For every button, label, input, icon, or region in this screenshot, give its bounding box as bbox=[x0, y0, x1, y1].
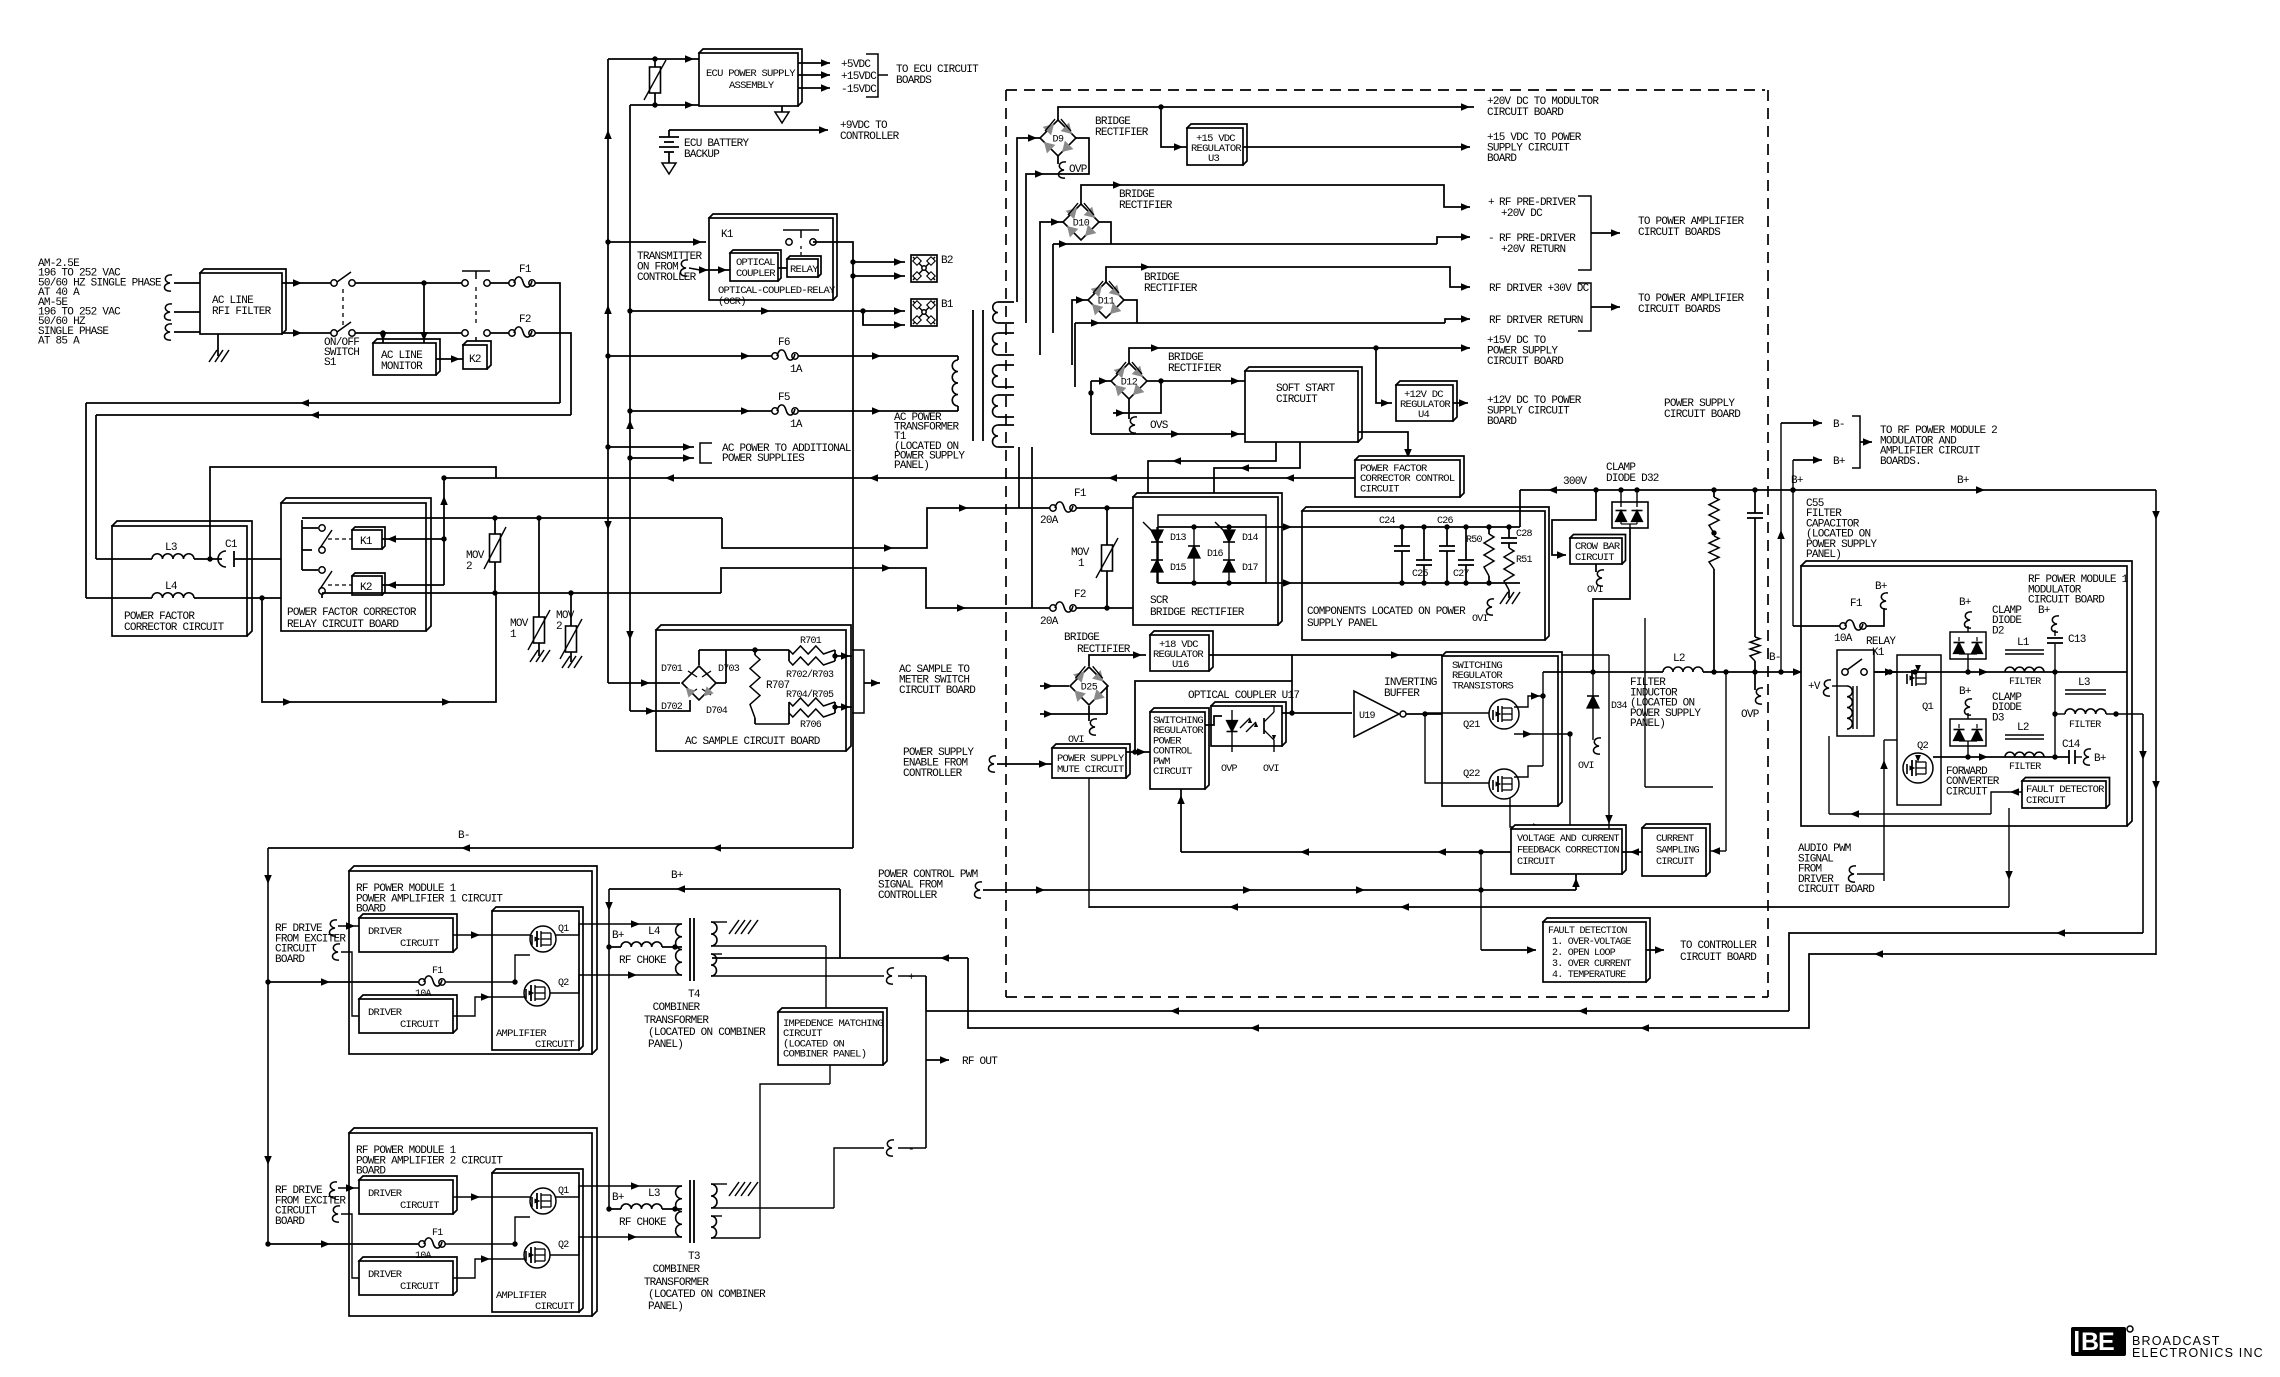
divider resistor chain bbox=[1713, 490, 1715, 497]
svg-text:20A: 20A bbox=[1040, 616, 1059, 628]
svg-text:+: + bbox=[908, 972, 914, 984]
svg-text:CIRCUIT: CIRCUIT bbox=[1656, 857, 1694, 868]
svg-text:CIRCUIT: CIRCUIT bbox=[1575, 552, 1614, 564]
svg-text:D14: D14 bbox=[1242, 533, 1259, 544]
svg-text:B+: B+ bbox=[612, 1192, 624, 1204]
RF POWER MODULE PA1 box bbox=[349, 866, 597, 1054]
svg-text:3. OVER CURRENT: 3. OVER CURRENT bbox=[1552, 959, 1632, 970]
T4 to IMC riser bbox=[825, 946, 827, 1012]
svg-text:B+: B+ bbox=[1791, 475, 1803, 487]
T3 ground bbox=[729, 1182, 739, 1196]
svg-text:RECTIFIER: RECTIFIER bbox=[1095, 127, 1149, 139]
svg-text:C25: C25 bbox=[1412, 569, 1429, 580]
dashed link K2 bbox=[328, 584, 352, 586]
AC input squiggle 3 bbox=[164, 324, 172, 340]
svg-text:Q21: Q21 bbox=[1463, 719, 1480, 731]
fault detection output bbox=[1646, 949, 1664, 951]
on/off switch S1 pole 1 bbox=[331, 280, 337, 286]
svg-text:(LOCATED ON COMBINER: (LOCATED ON COMBINER bbox=[648, 1289, 766, 1301]
RELAY K1 box bbox=[1837, 650, 1874, 736]
feedback to PWM riser bbox=[1180, 789, 1182, 852]
ECU +5VDC out bbox=[798, 62, 830, 64]
wire to PFC left leg 1 bbox=[86, 402, 560, 404]
svg-text:PANEL): PANEL) bbox=[1806, 549, 1841, 561]
svg-text:FAULT DETECTION: FAULT DETECTION bbox=[1548, 926, 1628, 937]
svg-text:PANEL): PANEL) bbox=[648, 1301, 683, 1313]
feedback output line bbox=[1181, 851, 1511, 853]
inductor L2 filter bbox=[2005, 734, 2044, 736]
drain column bbox=[1542, 672, 1544, 766]
B- bus bbox=[268, 847, 853, 849]
300V rail bbox=[1520, 489, 2156, 491]
T3 secondary leads bbox=[711, 1183, 727, 1185]
svg-text:CIRCUIT BOARD: CIRCUIT BOARD bbox=[1680, 952, 1757, 964]
thyristor D13 bbox=[1151, 530, 1163, 542]
T4 secondary bbox=[711, 922, 717, 946]
FAULT DETECTOR CIRCUIT box bbox=[2022, 778, 2110, 809]
feedback top riser bbox=[1562, 654, 1609, 656]
svg-text:BE: BE bbox=[2081, 1328, 2114, 1356]
svg-text:1A: 1A bbox=[790, 419, 803, 431]
svg-text:CIRCUIT: CIRCUIT bbox=[1153, 766, 1192, 778]
MOSFET Q1 bbox=[1911, 670, 1913, 686]
output port bbox=[898, 975, 926, 977]
B1 feed 2 bbox=[863, 311, 905, 325]
B+ bus west bbox=[609, 888, 840, 890]
OPTICAL COUPLER U17 box bbox=[1211, 702, 1286, 746]
svg-text:PANEL): PANEL) bbox=[648, 1039, 683, 1051]
B+ choke riser bbox=[608, 889, 610, 1209]
B+ rail right end bbox=[2155, 490, 2157, 955]
svg-text:10A: 10A bbox=[415, 989, 432, 1000]
PFC left verticals bbox=[85, 403, 87, 598]
U3 input wire bbox=[1161, 107, 1187, 147]
driver to Q2 2 bbox=[453, 1259, 524, 1278]
svg-text:CONTROLLER: CONTROLLER bbox=[840, 131, 900, 143]
capacitor C25 bbox=[1416, 559, 1432, 561]
combiner transformer T3 primary bbox=[676, 1186, 682, 1237]
svg-text:SCR: SCR bbox=[1150, 595, 1169, 607]
ground under RFI filter bbox=[217, 334, 219, 356]
ECU ground bbox=[781, 106, 783, 112]
D9 return loop bbox=[1026, 138, 1089, 323]
D12 aux loop bbox=[1113, 381, 1161, 413]
sample out 1 bbox=[835, 655, 852, 657]
svg-text:CORRECTOR CIRCUIT: CORRECTOR CIRCUIT bbox=[124, 622, 225, 634]
wire S1 to K contacts top bbox=[355, 282, 462, 284]
B1 feed 1 bbox=[630, 310, 905, 312]
300V riser bbox=[1644, 618, 1646, 787]
svg-text:SAMPLING: SAMPLING bbox=[1656, 846, 1700, 857]
svg-text:U3: U3 bbox=[1208, 153, 1220, 165]
svg-text:L2: L2 bbox=[1673, 653, 1685, 665]
K relay contact top bbox=[462, 280, 468, 286]
svg-text:F2: F2 bbox=[519, 314, 531, 326]
U16 feed down to opto bbox=[1291, 655, 1293, 713]
sample out bracket bbox=[852, 650, 864, 713]
bridge module B1 bbox=[911, 299, 937, 326]
B- left riser bbox=[267, 848, 269, 1244]
svg-text:C27: C27 bbox=[1453, 569, 1470, 580]
AC input squiggle 2 bbox=[164, 304, 172, 320]
clamp diode D32 bbox=[1612, 502, 1648, 528]
svg-text:D11: D11 bbox=[1098, 297, 1115, 308]
Q2 out 2 bbox=[550, 1237, 682, 1255]
svg-text:DRIVER: DRIVER bbox=[368, 926, 403, 938]
svg-text:C24: C24 bbox=[1379, 516, 1396, 527]
svg-text:TO CONTROLLER: TO CONTROLLER bbox=[1680, 940, 1757, 952]
components panel box bbox=[1302, 507, 1549, 640]
inductor L3 bbox=[96, 558, 152, 560]
crow bar feed bbox=[1552, 490, 1596, 555]
T1 core bbox=[972, 310, 974, 441]
svg-text:TRANSFORMER: TRANSFORMER bbox=[644, 1015, 710, 1027]
D25 input bbox=[1040, 685, 1069, 687]
fault detector input bbox=[2005, 791, 2022, 793]
sampling right feed bbox=[1725, 672, 1727, 851]
soft start to PFC control wire bbox=[1358, 432, 1408, 460]
PFC control output long wire bbox=[444, 477, 1355, 479]
bracket arrow bbox=[1860, 441, 1872, 443]
bridge rectifier D9 bbox=[1040, 120, 1076, 156]
beta line y1011 bbox=[926, 1010, 1789, 1012]
svg-text:RF CHOKE: RF CHOKE bbox=[619, 955, 667, 967]
dashed link K1 bbox=[328, 538, 352, 540]
diode D16 bbox=[1188, 546, 1200, 558]
B- terminal wire bbox=[1781, 422, 1822, 424]
T1 secondary windings bbox=[993, 302, 998, 323]
svg-text:Q1: Q1 bbox=[1922, 701, 1934, 713]
svg-text:L4: L4 bbox=[648, 926, 661, 938]
bridge rectifier D10 bbox=[1063, 204, 1099, 240]
Q22 drain wire bbox=[1514, 766, 1543, 777]
svg-text:B+: B+ bbox=[612, 930, 624, 942]
svg-text:-15VDC: -15VDC bbox=[841, 84, 877, 96]
enable squiggle wire bbox=[988, 756, 996, 772]
U3 output wire bbox=[1243, 146, 1470, 148]
POWER FACTOR CORRECTOR CONTROL box bbox=[1355, 456, 1464, 497]
D9 input wire bbox=[1017, 138, 1040, 302]
svg-text:2. OPEN LOOP: 2. OPEN LOOP bbox=[1552, 948, 1616, 959]
svg-text:OVP: OVP bbox=[1741, 709, 1760, 721]
svg-text:S1: S1 bbox=[324, 357, 337, 369]
inductor L1 bbox=[2005, 649, 2044, 651]
sample out arrow bbox=[864, 682, 880, 684]
MOV 1 middle bbox=[1106, 508, 1108, 545]
plus terminal feed bbox=[883, 975, 885, 977]
soft start gate wire 1 bbox=[1148, 442, 1276, 522]
AC SAMPLE CIRCUIT BOARD box bbox=[656, 625, 851, 751]
bridge rectifier D11 bbox=[1088, 282, 1124, 318]
module bottom wire bbox=[1829, 813, 1991, 815]
svg-text:C1: C1 bbox=[225, 539, 238, 551]
svg-text:FILTER: FILTER bbox=[2009, 677, 2041, 688]
inductor L4 bbox=[86, 597, 152, 599]
bridge module B2 bbox=[911, 255, 937, 282]
svg-text:CIRCUIT: CIRCUIT bbox=[535, 1301, 574, 1313]
svg-text:CONTROLLER: CONTROLLER bbox=[878, 890, 938, 902]
bus A y907 bbox=[1089, 906, 2009, 908]
F1 to SCR bbox=[1076, 507, 1158, 509]
C55 divider bbox=[1754, 490, 1756, 513]
wire to PFC left leg 2 bbox=[96, 414, 571, 416]
PA2 F1 fuse bbox=[268, 1243, 419, 1245]
FAULT DETECTION box bbox=[1543, 918, 1650, 982]
DRIVER CIRCUIT 2b box bbox=[359, 1257, 457, 1295]
K1 coil box bbox=[352, 527, 385, 549]
AC sample input 2 bbox=[630, 700, 690, 711]
POWER SUPPLY MUTE box bbox=[1052, 744, 1130, 778]
rail lower to MOV2 bbox=[322, 592, 721, 594]
F1 B+ stub bbox=[1866, 608, 1884, 626]
svg-text:-: - bbox=[1488, 233, 1494, 245]
audio pwm squiggle bbox=[1848, 866, 1856, 882]
svg-text:BOARD: BOARD bbox=[275, 954, 305, 966]
svg-text:AC SAMPLE CIRCUIT BOARD: AC SAMPLE CIRCUIT BOARD bbox=[685, 736, 821, 748]
C14 bbox=[2068, 750, 2070, 764]
on/off switch S1 pole 2 bbox=[331, 330, 337, 336]
contact common vertical bbox=[301, 520, 303, 570]
svg-text:COMBINER: COMBINER bbox=[653, 1002, 701, 1014]
svg-text:F1: F1 bbox=[1074, 488, 1087, 500]
optical coupled relay K1 box bbox=[709, 214, 837, 300]
D10 return wire bbox=[1099, 222, 1111, 244]
K relay contact bottom bbox=[462, 330, 468, 336]
diode D17 bbox=[1223, 560, 1235, 572]
T3 core bbox=[689, 1180, 691, 1243]
capacitor C28 bbox=[1501, 537, 1517, 539]
U17 LED bbox=[1231, 710, 1233, 721]
MOV 2b to ground bbox=[570, 593, 572, 626]
diode D34 bbox=[1592, 672, 1594, 696]
svg-text:ELECTRONICS INC: ELECTRONICS INC bbox=[2132, 1346, 2264, 1360]
svg-text:+20V DC: +20V DC bbox=[1501, 208, 1543, 220]
+V squiggle bbox=[1823, 680, 1831, 696]
MOSFET Q2 bbox=[1903, 753, 1933, 783]
ECU -15VDC out bbox=[798, 87, 830, 89]
svg-text:DRIVER: DRIVER bbox=[368, 1269, 403, 1281]
svg-text:BOARD: BOARD bbox=[1487, 153, 1517, 165]
OPTICAL COUPLER box bbox=[730, 250, 781, 281]
svg-text:MUTE CIRCUIT: MUTE CIRCUIT bbox=[1057, 764, 1124, 776]
svg-text:CIRCUIT BOARD: CIRCUIT BOARD bbox=[1664, 409, 1741, 421]
relay contact pair 1 bbox=[319, 525, 325, 531]
panel ground bbox=[1508, 590, 1510, 598]
svg-text:-: - bbox=[908, 1144, 914, 1156]
Q22 source wire bbox=[1510, 798, 1570, 827]
DRIVER CIRCUIT 2a box bbox=[359, 1176, 457, 1214]
svg-text:CURRENT: CURRENT bbox=[1656, 834, 1694, 845]
rf drive squiggle 2b bbox=[332, 1206, 340, 1222]
wire bus to K1 OCR bbox=[608, 241, 706, 243]
L3 out bbox=[2106, 713, 2143, 715]
coupler-relay wire bbox=[778, 267, 787, 269]
svg-text:L1: L1 bbox=[2017, 637, 2030, 649]
svg-text:D701: D701 bbox=[661, 664, 683, 675]
B2 feed 1 bbox=[853, 261, 905, 263]
wire PFC top rail riser bbox=[210, 467, 496, 559]
capacitor C1 bbox=[194, 558, 222, 560]
svg-text:OVI: OVI bbox=[1263, 764, 1279, 775]
RF choke L3 bbox=[621, 1204, 662, 1209]
svg-text:Q2: Q2 bbox=[558, 978, 569, 989]
fuse F6 wire bbox=[608, 355, 772, 357]
svg-text:K2: K2 bbox=[469, 354, 481, 366]
AC sample input 1 bbox=[608, 682, 680, 684]
svg-text:+20V RETURN: +20V RETURN bbox=[1501, 244, 1566, 256]
module rail 1 bbox=[1874, 671, 2127, 673]
arrow to PA boards 1 bbox=[1591, 232, 1620, 234]
arrow to PA boards 2 bbox=[1591, 306, 1620, 308]
fault detect riser bbox=[1480, 852, 1482, 950]
svg-text:D15: D15 bbox=[1170, 563, 1187, 574]
PWM riser bbox=[1135, 681, 1292, 752]
rail contacts to MOV2 bbox=[302, 517, 722, 519]
rf drive squiggle 2a bbox=[329, 1182, 337, 1198]
fuse F2 20A bbox=[1050, 605, 1056, 611]
alpha line y1028 bbox=[968, 954, 2156, 1028]
svg-text:CIRCUIT BOARD: CIRCUIT BOARD bbox=[1487, 107, 1564, 119]
svg-text:PANEL): PANEL) bbox=[1630, 718, 1665, 730]
beta step right bbox=[1789, 933, 2143, 1011]
svg-text:BUFFER: BUFFER bbox=[1384, 688, 1420, 700]
D32 to D34 wire bbox=[1593, 528, 1630, 672]
svg-text:D34: D34 bbox=[1611, 701, 1628, 712]
ECU POWER SUPPLY ASSEMBLY bbox=[699, 49, 802, 106]
bracket rf driver bbox=[1578, 283, 1591, 331]
R707 bbox=[698, 650, 700, 665]
L4 wire to relay board bbox=[194, 597, 350, 599]
relay contact pair 2 bbox=[319, 567, 325, 573]
AMPLIFIER CIRCUIT 1 box bbox=[492, 907, 583, 1050]
wire RFI to switch S1 bottom bbox=[282, 332, 332, 334]
dashed border power supply circuit board bbox=[1006, 89, 1765, 91]
R704/R705 bbox=[789, 698, 835, 706]
rf drive squiggle 1a bbox=[329, 920, 337, 936]
svg-text:C13: C13 bbox=[2068, 634, 2086, 646]
U4 output wire bbox=[1453, 402, 1468, 404]
diode D15 bbox=[1151, 560, 1163, 572]
sample top rail bbox=[755, 649, 789, 651]
sample out 2 bbox=[835, 706, 852, 708]
wire bus to ECU top bbox=[608, 58, 699, 60]
svg-text:D703: D703 bbox=[718, 664, 740, 675]
svg-text:Q22: Q22 bbox=[1463, 768, 1480, 780]
C13 bbox=[2054, 644, 2056, 672]
svg-text:CONTROLLER: CONTROLLER bbox=[637, 272, 697, 284]
stepped rail 1 to F1 bbox=[722, 508, 1050, 548]
driver to Q1 bbox=[453, 934, 530, 936]
svg-text:CIRCUIT BOARD: CIRCUIT BOARD bbox=[1487, 356, 1564, 368]
soft start gate wire 2 bbox=[1214, 442, 1300, 522]
svg-text:CIRCUIT: CIRCUIT bbox=[400, 938, 439, 950]
svg-text:CIRCUIT BOARDS: CIRCUIT BOARDS bbox=[1638, 227, 1721, 239]
svg-text:L4: L4 bbox=[165, 581, 178, 593]
MOV 2 shunt bbox=[490, 534, 501, 562]
svg-text:RF DRIVER RETURN: RF DRIVER RETURN bbox=[1489, 315, 1583, 327]
+15 VDC REGULATOR U3 bbox=[1187, 124, 1247, 165]
B2 feed 2 bbox=[853, 275, 905, 277]
svg-text:K1: K1 bbox=[721, 229, 734, 241]
svg-text:RECTIFIER: RECTIFIER bbox=[1119, 200, 1173, 212]
AC LINE RFI FILTER bbox=[200, 269, 286, 334]
svg-text:2: 2 bbox=[466, 561, 472, 573]
svg-text:OVI: OVI bbox=[1472, 614, 1488, 625]
svg-text:L3: L3 bbox=[648, 1188, 660, 1200]
svg-text:D9: D9 bbox=[1052, 135, 1064, 146]
source column riser bbox=[1569, 734, 1571, 829]
clamp diode D2 box bbox=[1950, 632, 1986, 659]
B+ bus drop bbox=[839, 889, 841, 958]
svg-text:20A: 20A bbox=[1040, 515, 1059, 527]
svg-text:T4: T4 bbox=[688, 989, 701, 1001]
svg-text:U4: U4 bbox=[1418, 409, 1430, 421]
inductor L3 filter bbox=[2065, 689, 2106, 691]
svg-text:CIRCUIT BOARDS: CIRCUIT BOARDS bbox=[1638, 304, 1721, 316]
panel OVI bbox=[1486, 599, 1494, 615]
svg-text:D25: D25 bbox=[1081, 683, 1098, 694]
D2 B+ stub bbox=[1967, 626, 1969, 632]
svg-text:F1: F1 bbox=[519, 264, 532, 276]
svg-text:POWER SUPPLIES: POWER SUPPLIES bbox=[722, 453, 805, 465]
svg-text:2: 2 bbox=[556, 621, 562, 633]
svg-text:B+: B+ bbox=[1959, 686, 1971, 698]
wire bus to ECU bottom bbox=[630, 104, 699, 106]
D12 output wire +15V bbox=[1129, 348, 1470, 363]
svg-text:R702/R703: R702/R703 bbox=[786, 669, 834, 681]
D12 input wire bbox=[1091, 380, 1111, 382]
AC input squiggle 1 bbox=[164, 275, 172, 291]
wire S1 to K contacts bottom bbox=[355, 332, 462, 334]
SCR bottom rail bbox=[1158, 582, 1302, 584]
+18 VDC REGULATOR U16 bbox=[1150, 631, 1213, 671]
U17 out wire bbox=[1282, 712, 1352, 714]
D10 input wire bbox=[1040, 222, 1063, 355]
F5 to T1 bbox=[798, 410, 958, 412]
VOLTAGE AND CURRENT FEEDBACK box bbox=[1511, 825, 1626, 874]
svg-text:Q1: Q1 bbox=[558, 924, 569, 935]
svg-text:B-: B- bbox=[458, 830, 470, 842]
svg-text:RFI FILTER: RFI FILTER bbox=[212, 306, 272, 318]
svg-text:CIRCUIT: CIRCUIT bbox=[1360, 483, 1399, 495]
module right risers bbox=[2142, 714, 2144, 933]
T1 secondary taps down bbox=[1018, 447, 1020, 508]
audio pwm gate riser bbox=[1883, 740, 1885, 881]
svg-text:B+: B+ bbox=[1833, 456, 1845, 468]
switch S1 link bbox=[342, 289, 344, 327]
D3 B+ stub bbox=[1967, 713, 1969, 719]
relay to Q1 wire bbox=[1874, 671, 1897, 673]
bus to fault vertical bbox=[2008, 808, 2010, 907]
svg-text:RF CHOKE: RF CHOKE bbox=[619, 1217, 667, 1229]
svg-text:RECTIFIER: RECTIFIER bbox=[1144, 283, 1198, 295]
svg-text:SUPPLY PANEL: SUPPLY PANEL bbox=[1307, 618, 1377, 630]
driver to Q2 bbox=[453, 997, 524, 1016]
resistor R51 bbox=[1504, 548, 1514, 590]
PA1 Q2 bbox=[524, 980, 550, 1006]
svg-text:D704: D704 bbox=[706, 706, 728, 717]
D25 return bbox=[1040, 713, 1107, 715]
svg-text:DRIVER: DRIVER bbox=[368, 1007, 403, 1019]
module rail 2 bbox=[1933, 756, 2069, 758]
svg-text:1. OVER-VOLTAGE: 1. OVER-VOLTAGE bbox=[1552, 937, 1632, 948]
svg-text:BRIDGE RECTIFIER: BRIDGE RECTIFIER bbox=[1150, 607, 1245, 619]
fuse F1 10A bbox=[1793, 625, 1840, 627]
stepped rail 2 to F2 bbox=[721, 568, 1050, 608]
capacitor C24 bbox=[1394, 545, 1410, 547]
svg-text:C14: C14 bbox=[2062, 739, 2081, 751]
svg-text:C28: C28 bbox=[1516, 529, 1533, 540]
